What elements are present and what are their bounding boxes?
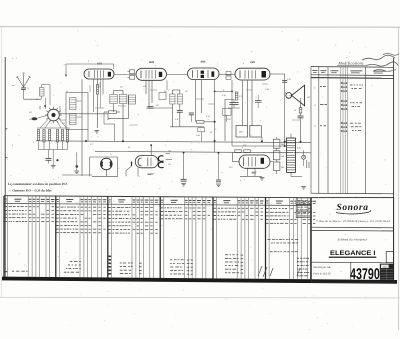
- paper bottom fold edge: [0, 296, 400, 299]
- revision header labels: [312, 69, 317, 72]
- wire to switch: [45, 98, 47, 109]
- svg-text:6M6: 6M6: [149, 61, 155, 64]
- parts table sub-column lines: [7, 196, 9, 277]
- handwritten NB note in table: [267, 238, 270, 241]
- revision table grid: [311, 66, 394, 69]
- wire y121.8: [204, 121, 215, 123]
- switch wiper: [32, 117, 38, 120]
- twin diode crescents: [158, 156, 163, 162]
- speaker cone: [292, 85, 305, 106]
- wire V4 pins: [242, 80, 244, 126]
- wire V3-V4 link: [219, 73, 235, 75]
- wire x225: [224, 99, 226, 141]
- svg-text:L1: L1: [66, 90, 68, 93]
- svg-text:Le commutateur est dans la pos: Le commutateur est dans la position P.O.: [7, 182, 68, 186]
- grid components left of V4: [226, 72, 231, 76]
- grid resistors above V6: [235, 150, 242, 153]
- wire bank bottom leads: [38, 142, 40, 150]
- wire V2-V3 link: [167, 73, 188, 75]
- wire V1 pins down: [93, 79, 95, 112]
- parts table lower entries: [12, 270, 14, 273]
- V3 electrodes: [192, 70, 194, 77]
- parts table header cell labels: [5, 198, 7, 201]
- svg-text:6H8: 6H8: [201, 61, 206, 64]
- wire V3 pins: [195, 80, 197, 122]
- paper top fold edge: [0, 26, 400, 29]
- capacitor C8 under V2: [148, 106, 154, 108]
- IF transformer T2: [110, 95, 118, 104]
- capacitor C5: [46, 158, 52, 160]
- wire V2 pins: [145, 80, 147, 94]
- wire B- rail y141: [36, 141, 311, 143]
- resistor chain R14 R15 R16: [273, 139, 280, 148]
- frame reference nubs: [5, 128, 7, 130]
- svg-text:100: 100: [281, 155, 284, 158]
- T1 primary coil: [70, 98, 77, 110]
- wire trunk x214.6: [214, 80, 216, 152]
- speaker voice-coil circle: [286, 93, 292, 99]
- resistor R7: [197, 121, 205, 124]
- antenna: [23, 86, 25, 89]
- svg-text:10: 10: [294, 109, 296, 112]
- svg-text:PO: PO: [29, 111, 32, 114]
- IF transformer T3: [170, 94, 175, 104]
- misc short wire stubs: [89, 85, 91, 92]
- wire y176 segments: [92, 175, 118, 177]
- wire rail y146 right: [232, 145, 285, 147]
- filter choke circle: [101, 158, 113, 170]
- capacitor C12: [189, 112, 194, 114]
- ground under R1: [94, 130, 99, 132]
- field coil L9 (hatched bar): [287, 138, 296, 172]
- svg-text:500: 500: [281, 143, 284, 146]
- V2 electrodes: [140, 71, 142, 79]
- svg-text:Dessiné par AB: Dessiné par AB: [312, 266, 330, 269]
- capacitor C20: [298, 115, 304, 117]
- grid stoppers beside V2: [130, 70, 135, 74]
- aerial coil L2: [40, 88, 45, 97]
- tube V1 6E8: [84, 69, 114, 79]
- capacitor C23: [216, 179, 221, 181]
- rule above signature band: [311, 261, 387, 263]
- V4 electrodes: [239, 70, 241, 78]
- svg-text:Sonora: Sonora: [336, 203, 368, 213]
- V5 cathode stub: [131, 162, 133, 164]
- band switch S1 (rotary, circle with contacts): [48, 109, 60, 121]
- tube V6 6M7: [239, 155, 270, 168]
- tube V3 6H8: [188, 68, 220, 80]
- wire V1-V2 link: [114, 73, 136, 75]
- tube V2 6M6: [136, 68, 167, 80]
- padding trimmer dots: [56, 159, 58, 161]
- parts table corner cells: [296, 198, 311, 205]
- tube V5 6AF7: [135, 156, 158, 168]
- wire stub V2 right: [166, 80, 168, 90]
- svg-text:Paris le 16.3.56: Paris le 16.3.56: [312, 273, 331, 276]
- IF/aerial transformer T1 can: [66, 93, 88, 130]
- parts table data row entries: [5, 205, 7, 208]
- ground left: [76, 165, 79, 168]
- wire V4 plate right: [270, 73, 285, 75]
- capacitor C9: [177, 110, 183, 112]
- pencil scribble marks over table: [258, 266, 300, 277]
- wire trunk x82: [81, 80, 83, 177]
- wire T1 leads: [87, 130, 89, 142]
- svg-text:Schéma du récepteur: Schéma du récepteur: [338, 238, 369, 242]
- paper right edge: [398, 27, 400, 330]
- junction dots row: [44, 105, 46, 107]
- wire choke frame: [90, 156, 118, 158]
- svg-text:43790: 43790: [350, 266, 380, 283]
- svg-text:Ant: Ant: [11, 84, 15, 87]
- svg-text:Modifications: Modifications: [337, 60, 364, 65]
- wire antenna lead: [23, 89, 25, 99]
- parts table group divider lines: [3, 196, 5, 278]
- svg-text:C21: C21: [229, 166, 233, 169]
- antenna coupling capacitor C1: [21, 87, 26, 89]
- output transformer boxes: [236, 126, 248, 138]
- wire to speaker: [284, 74, 286, 146]
- paper left edge: [0, 27, 2, 297]
- svg-text:GO: GO: [29, 118, 33, 121]
- volume pot box under V3: [223, 109, 232, 116]
- wire V6 leads: [232, 161, 239, 163]
- resistor R9: [235, 92, 238, 100]
- signature cell divider: [350, 262, 352, 282]
- wire crescent leads: [166, 153, 171, 155]
- resistor R12 speaker return: [300, 98, 302, 108]
- ground right: [301, 186, 306, 188]
- resistor bank R3-R8: [37, 130, 39, 141]
- wire V1 grid cap: [66, 63, 114, 65]
- svg-text:6M7: 6M7: [252, 172, 257, 175]
- capacitor C17 pair: [229, 102, 238, 104]
- wire T3 bottoms: [171, 104, 173, 127]
- capacitor C22: [181, 178, 187, 180]
- svg-text:HP: HP: [307, 96, 311, 99]
- frame left border: [4, 57, 6, 280]
- frame bottom heavy bar: [2, 277, 397, 284]
- resistor R1: [96, 85, 98, 95]
- small boxes under V3: [198, 128, 205, 132]
- resistor R2 horizontal: [109, 111, 117, 114]
- wire x232 top-down: [231, 80, 233, 146]
- V5 electrodes: [138, 158, 142, 166]
- V6 electrodes: [242, 157, 244, 166]
- plug pins: [306, 160, 308, 168]
- top-right handwriting scrawl: [362, 55, 395, 60]
- title block double rule: [311, 226, 393, 229]
- parts table top rule: [4, 196, 311, 198]
- revision narrow-column tick marks: [341, 82, 342, 84]
- svg-text:6AF7: 6AF7: [147, 173, 154, 176]
- wire resistor bank top bus: [37, 127, 70, 129]
- frame right border: [393, 58, 395, 282]
- T1 secondary coil: [70, 114, 77, 125]
- approval stamp block: [380, 264, 394, 280]
- ground V6: [260, 177, 265, 179]
- svg-text:ELEGANCE I: ELEGANCE I: [330, 250, 376, 257]
- ground bank: [51, 165, 56, 167]
- screen resistor box under V2: [159, 93, 166, 100]
- speaker apex junction: [291, 95, 293, 97]
- tube V4 6AF7 output: [235, 68, 270, 80]
- IF coil third box: [128, 95, 135, 104]
- wire V5 top feed: [150, 145, 152, 156]
- svg-text:C1: C1: [27, 87, 29, 90]
- switch / lamp right edge: [302, 155, 306, 159]
- switch diagonals to bank: [40, 120, 48, 129]
- svg-text:250: 250: [281, 166, 284, 169]
- small tab box: [386, 252, 393, 263]
- svg-text:C11: C11: [175, 118, 179, 121]
- parts table header underline: [4, 204, 311, 206]
- svg-text:7, Rue de la Marne · PUTEAUX: 7, Rue de la Marne · PUTEAUX (Seine) · T…: [316, 220, 391, 223]
- capacitor C16: [255, 100, 262, 102]
- wire mid verticals: [120, 95, 122, 110]
- wire links upper-mid: [103, 112, 105, 124]
- wire rail y152: [95, 151, 311, 152]
- coupling capacitor C19: [282, 80, 287, 82]
- svg-text:→ Gammes P.O – G.O du bloc: → Gammes P.O – G.O du bloc: [8, 189, 52, 193]
- V1 electrodes: [88, 71, 90, 77]
- wire T2 bottoms: [113, 104, 115, 113]
- svg-text:6V6: 6V6: [250, 61, 255, 64]
- svg-text:R11: R11: [243, 144, 247, 147]
- title block box: [311, 198, 393, 283]
